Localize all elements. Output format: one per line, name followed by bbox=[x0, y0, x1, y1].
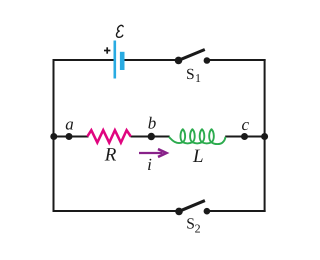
wire right vertical bbox=[264, 59, 266, 212]
switch S2 right contact dot bbox=[204, 208, 211, 215]
node a dot bbox=[66, 133, 73, 140]
switch S2 lever bbox=[179, 201, 205, 212]
svg-text:c: c bbox=[242, 115, 250, 134]
plus sign bbox=[104, 47, 110, 53]
svg-text:L: L bbox=[192, 146, 204, 167]
switch S2 left contact dot bbox=[175, 208, 183, 216]
node junction dot right rail bbox=[261, 133, 268, 140]
wire inductor to node c / right bbox=[225, 136, 265, 138]
switch S1 right contact dot bbox=[204, 57, 211, 64]
wire S1 to top-right corner bbox=[207, 59, 266, 61]
resistor R zigzag bbox=[87, 130, 131, 142]
switch S1 left contact dot bbox=[175, 57, 183, 65]
current arrow head bbox=[158, 149, 166, 157]
EMF script-E label bbox=[116, 25, 123, 37]
battery long plate (+) bbox=[114, 41, 117, 79]
node b dot bbox=[148, 133, 155, 140]
inductor L coil bbox=[169, 129, 226, 144]
wire left vertical bbox=[53, 59, 55, 212]
battery short plate (-) bbox=[120, 52, 125, 70]
wire S2 to bottom-right corner bbox=[207, 210, 266, 212]
svg-text:S: S bbox=[186, 66, 195, 83]
switch S1 lever bbox=[178, 50, 205, 61]
node c dot bbox=[241, 133, 248, 140]
node junction dot left rail bbox=[50, 133, 57, 140]
wire battery to S1 bbox=[124, 59, 179, 61]
svg-text:i: i bbox=[147, 155, 152, 174]
svg-text:b: b bbox=[148, 114, 157, 133]
svg-text:2: 2 bbox=[195, 221, 201, 235]
wire bottom-left to S2 bbox=[54, 210, 180, 212]
wire top-left segment bbox=[54, 59, 114, 61]
svg-text:1: 1 bbox=[195, 71, 201, 85]
svg-text:R: R bbox=[104, 145, 117, 166]
svg-text:a: a bbox=[65, 115, 74, 134]
current arrow shaft bbox=[139, 152, 163, 154]
wire resistor to inductor bbox=[131, 136, 170, 138]
wire middle left (node a to resistor) bbox=[54, 136, 89, 138]
